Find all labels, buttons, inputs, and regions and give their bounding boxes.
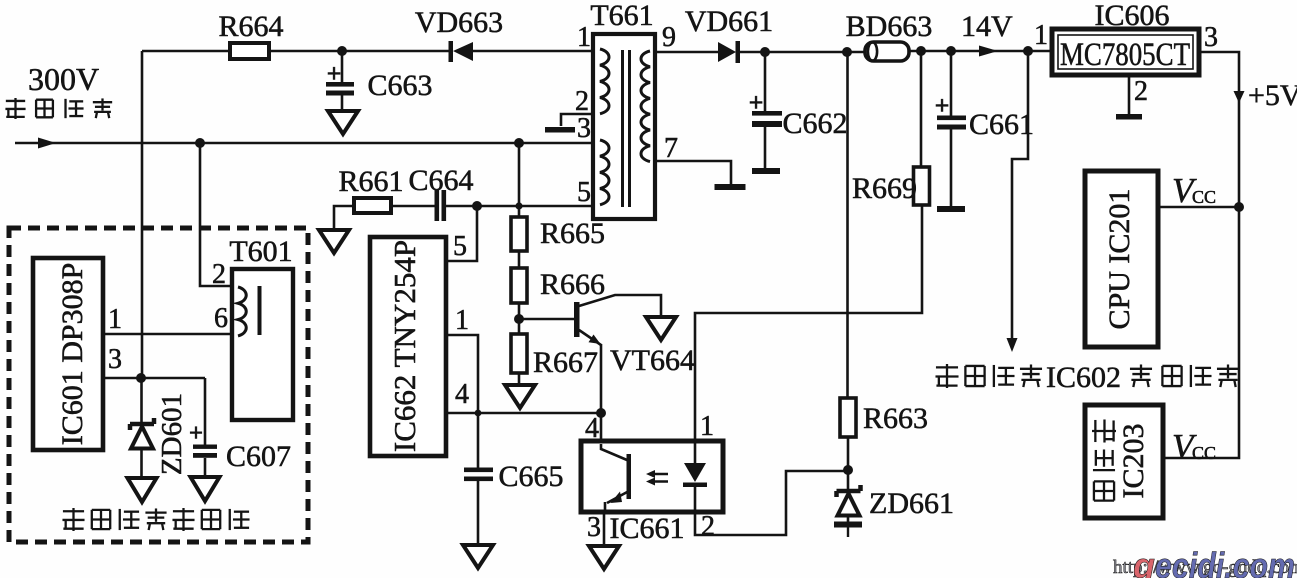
svg-text:9: 9	[662, 22, 676, 53]
wire jog from 14V node down to main-power arrow	[1012, 51, 1028, 340]
zener diode ZD601	[130, 378, 154, 478]
wire IC662 pin4 row	[446, 412, 601, 415]
diode VD663 (cathode left)	[415, 6, 503, 62]
wire from output rail node down to R663	[846, 52, 849, 398]
svg-text:C663: C663	[367, 69, 432, 102]
wire CPU Vcc to +5V line	[1158, 206, 1239, 209]
node pin1/pin4/C665	[475, 410, 482, 417]
node IC606 pin1 branch	[1023, 46, 1033, 56]
node C664/IC662 pin5 branch	[472, 201, 482, 211]
wire node to R667	[518, 319, 521, 334]
svg-text:IC602: IC602	[1046, 361, 1121, 394]
svg-text:+5V: +5V	[1248, 79, 1297, 112]
IC IC662 TNY254P	[370, 237, 446, 456]
text to main power IC602 supply (CJK)	[935, 361, 1239, 394]
wire C663 node to VD663	[342, 50, 450, 53]
svg-text:g: g	[1132, 545, 1155, 578]
svg-text:BD663: BD663	[846, 10, 933, 43]
svg-text:R665: R665	[540, 217, 605, 250]
wire R667 to ground	[518, 373, 521, 385]
wire R666 to node	[518, 303, 521, 319]
resistor R666	[511, 268, 605, 303]
svg-text:VD661: VD661	[685, 5, 773, 38]
ground below C665	[463, 545, 493, 568]
svg-text:1: 1	[577, 22, 591, 53]
bar ground below T661 pin7	[715, 184, 746, 190]
ground for R661	[319, 230, 349, 253]
wire IC606 pin2 to bar ground	[1128, 75, 1131, 114]
text main switch power supply circuit (CJK)	[62, 508, 249, 531]
IC IC601 DP308P	[33, 258, 103, 450]
svg-text:4: 4	[585, 413, 599, 444]
wire T661 pin5 to node	[519, 205, 593, 208]
transformer T601	[229, 235, 293, 420]
svg-text:IC601 DP308P: IC601 DP308P	[56, 263, 89, 446]
node C663 top	[337, 46, 347, 56]
svg-text:T601: T601	[229, 235, 292, 268]
bar ground below ZD661	[834, 522, 862, 538]
text label (CJK) zhengliu dianya	[5, 98, 112, 119]
svg-text:R667: R667	[533, 346, 598, 379]
wire node to VT664 base	[519, 318, 574, 321]
svg-text:CPU IC201: CPU IC201	[1103, 189, 1136, 330]
inductor BD663 (bead)	[846, 10, 933, 61]
node IC601 pin3 / ZD601	[136, 373, 146, 383]
bar ground below C661	[937, 206, 965, 212]
capacitor C664	[408, 164, 473, 221]
wire IC601 pin1 to T601 pin6	[103, 333, 232, 336]
capacitor C662 (electrolytic)	[749, 52, 848, 168]
node R669 top	[916, 46, 926, 56]
node pin5/R665/C664	[515, 202, 522, 209]
resistor R665	[511, 217, 605, 251]
arrow on 14V rail	[979, 46, 998, 57]
svg-text:C665: C665	[498, 460, 563, 493]
node main rail to R665 branch	[514, 138, 524, 148]
watermark logo	[1132, 545, 1295, 578]
arrow +5V	[1234, 91, 1245, 103]
svg-text:CC: CC	[1192, 187, 1216, 207]
wire IC601 pin3 row	[103, 377, 205, 380]
svg-text:2: 2	[1134, 76, 1148, 107]
svg-text:2: 2	[701, 511, 715, 542]
svg-text:CC: CC	[1192, 443, 1216, 463]
node main rail to T601 branch	[195, 138, 205, 148]
svg-text:5: 5	[453, 231, 467, 262]
svg-text:C664: C664	[408, 164, 473, 197]
wire node down to IC661 pin 4	[600, 413, 603, 444]
wire T661 pin9 to VD661	[655, 51, 718, 54]
bar ground below IC606 pin2	[1116, 114, 1142, 120]
capacitor C663 (electrolytic, + mark)	[326, 51, 433, 111]
wire node to BD663	[847, 51, 866, 54]
svg-text:14V: 14V	[961, 10, 1013, 43]
IC CPU IC201	[1085, 171, 1158, 347]
wire C662 node to R663 node	[765, 51, 847, 54]
svg-text:R661: R661	[338, 165, 403, 198]
wire branch rail down to pin5/R665 node	[518, 143, 521, 206]
svg-text:R666: R666	[540, 268, 605, 301]
ground below C607	[191, 477, 220, 501]
IC memory IC203	[1085, 405, 1163, 518]
svg-text:IC662 TNY254P: IC662 TNY254P	[387, 240, 422, 452]
wire node to R665	[518, 206, 521, 217]
IC IC606 MC7805CT	[1052, 29, 1199, 75]
optocoupler IC661	[581, 441, 723, 545]
ground at VT664 collector	[646, 317, 676, 340]
svg-text:C662: C662	[782, 107, 847, 140]
svg-text:ZD601: ZD601	[156, 393, 188, 475]
svg-text:1: 1	[455, 305, 469, 336]
capacitor C665	[464, 413, 564, 545]
capacitor C607 (electrolytic)	[189, 420, 291, 477]
svg-text:1: 1	[700, 411, 714, 442]
wire C664 to node	[446, 205, 519, 208]
svg-text:IC661: IC661	[610, 512, 685, 545]
svg-text:4: 4	[455, 379, 469, 410]
pin 3 tap bar of T661	[545, 127, 575, 133]
svg-text:3: 3	[587, 512, 601, 543]
wire IC662 pin1 stub	[446, 335, 478, 413]
svg-text:MC7805CT: MC7805CT	[1060, 37, 1190, 73]
wire top rail from branch to R664	[142, 50, 231, 53]
capacitor C661 (electrolytic)	[935, 51, 1034, 206]
svg-text:5: 5	[577, 177, 591, 208]
ground below C663	[328, 111, 358, 134]
wire T661 pin7 to ground drop	[655, 161, 731, 184]
resistor R669	[852, 167, 930, 205]
zener diode ZD661	[837, 470, 955, 522]
svg-text:+: +	[189, 420, 203, 447]
resistor R667	[511, 334, 598, 379]
svg-text:IC203: IC203	[1117, 424, 1150, 499]
ground below R667	[505, 385, 535, 408]
wire node down to IC662 pin 5	[446, 206, 477, 261]
wire IC606 pin3 to +5V drop	[1163, 52, 1239, 458]
svg-text:1: 1	[1034, 20, 1048, 51]
resistor R663	[840, 398, 928, 437]
svg-text:3: 3	[108, 344, 122, 375]
wire VD661 to C662 node	[740, 51, 765, 54]
svg-text:7: 7	[664, 133, 678, 164]
wire pin3 row to C607 drop	[204, 378, 207, 445]
wire node down to R669	[920, 51, 923, 167]
svg-text:3: 3	[1204, 22, 1218, 53]
svg-text:ecidi.com: ecidi.com	[1155, 545, 1295, 578]
wire IC661 pin3 to ground	[603, 513, 606, 546]
svg-text:3: 3	[577, 113, 591, 144]
wire R663 to node	[847, 437, 850, 471]
wire VD663 to T661 pin 1	[473, 50, 593, 53]
svg-text:1: 1	[108, 304, 122, 335]
svg-text:T661: T661	[590, 0, 653, 32]
bar ground below C662	[752, 168, 780, 174]
svg-text:R664: R664	[218, 10, 283, 43]
diode VD661 (cathode right)	[685, 5, 773, 63]
resistor R664	[218, 10, 283, 59]
node R663 branch top	[842, 47, 852, 57]
wire R664 to C663 node	[269, 50, 342, 53]
transistor VT664 (NPN)	[574, 295, 695, 413]
wire IC661 pin1 up and right to R669 bottom	[695, 205, 922, 441]
resistor R661	[338, 165, 403, 213]
wire IC661 pin2 to ZD661 node	[695, 471, 848, 535]
svg-text:VD663: VD663	[415, 6, 503, 39]
node ZD661	[843, 465, 853, 475]
wire T661 pin2 stub to pin3 bar	[561, 114, 593, 126]
ground below IC661 pin 3	[589, 546, 619, 569]
node C662 top	[760, 47, 770, 57]
svg-text:ZD661: ZD661	[869, 487, 954, 520]
wire rail branch down to T601 pin2	[200, 143, 232, 286]
svg-text:C607: C607	[226, 440, 291, 473]
svg-text:300V: 300V	[28, 61, 99, 97]
node Vcc junction	[1234, 202, 1244, 212]
wire R661 to C664	[391, 205, 435, 208]
svg-text:6: 6	[214, 303, 228, 334]
svg-text:R669: R669	[852, 172, 917, 205]
arrow to IC602 supply	[1007, 338, 1018, 352]
text 300V rectified voltage	[28, 61, 99, 97]
wire 300V main rail with arrow	[15, 138, 593, 149]
svg-text:R663: R663	[863, 402, 928, 435]
wire ground to R661	[334, 206, 354, 230]
node VT664 emitter / IC661 pin4	[596, 408, 606, 418]
node base divider	[514, 314, 524, 324]
node C661 top	[946, 46, 956, 56]
svg-text:VT664: VT664	[610, 344, 695, 377]
transformer T661	[590, 0, 655, 219]
wire R665 to R666	[518, 251, 521, 268]
dashed box main switching power block	[9, 228, 308, 542]
ground below ZD601	[128, 478, 157, 502]
wire vertical branch from top rail down to IC601 pin3 node	[141, 51, 144, 378]
svg-text:C661: C661	[969, 108, 1034, 141]
wire BD663 to IC606 pin1	[909, 50, 1051, 53]
